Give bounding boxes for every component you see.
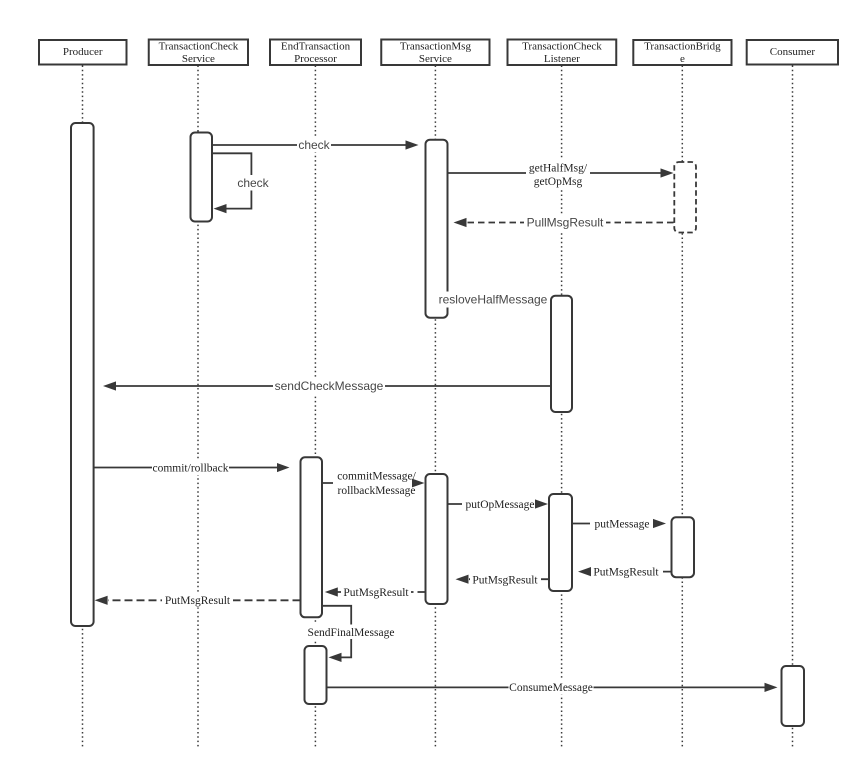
message PutMsgResult (TransactionCheckListener to TransactionMsgService, dashed) bbox=[456, 572, 550, 587]
activation Producer bbox=[71, 123, 94, 626]
lifeline EndTransactionProcessor bbox=[314, 66, 316, 748]
message SendFinalMessage (EndTransactionProcessor self-call) bbox=[304, 606, 398, 662]
activation EndTransactionProcessor 1 bbox=[301, 457, 323, 617]
svg-text:PutMsgResult: PutMsgResult bbox=[472, 574, 538, 586]
svg-text:Service: Service bbox=[182, 53, 215, 65]
svg-text:TransactionCheck: TransactionCheck bbox=[159, 41, 239, 53]
message PutMsgResult (EndTransactionProcessor to Producer, dashed) bbox=[95, 593, 301, 608]
participant TransactionMsgService bbox=[381, 40, 489, 66]
svg-text:check: check bbox=[298, 138, 330, 152]
activation TransactionMsgService 2 bbox=[426, 474, 448, 604]
message PutMsgResult (TransactionBridge to TransactionCheckListener, dashed) bbox=[578, 564, 671, 579]
participant Producer bbox=[39, 40, 127, 65]
message putMessage (TransactionCheckListener to TransactionBridge) bbox=[572, 516, 666, 531]
svg-text:sendCheckMessage: sendCheckMessage bbox=[275, 379, 384, 393]
message PutMsgResult (TransactionMsgService to EndTransactionProcessor, dashed) bbox=[325, 585, 426, 600]
svg-text:commit/rollback: commit/rollback bbox=[152, 462, 228, 474]
svg-text:TransactionBridg: TransactionBridg bbox=[644, 41, 721, 53]
message ConsumeMessage (EndTransactionProcessor to Consumer) bbox=[327, 680, 778, 695]
participant Consumer bbox=[747, 40, 838, 65]
svg-text:e: e bbox=[680, 53, 685, 65]
svg-text:getOpMsg: getOpMsg bbox=[534, 176, 583, 188]
message putOpMessage (TransactionMsgService to TransactionCheckListener) bbox=[448, 497, 549, 512]
participant EndTransactionProcessor bbox=[270, 40, 361, 66]
lifeline TransactionCheckService bbox=[197, 66, 199, 748]
label resloveHalfMessage bbox=[438, 292, 548, 308]
svg-text:check: check bbox=[237, 176, 269, 190]
participant TransactionCheckListener bbox=[508, 40, 617, 66]
svg-text:PutMsgResult: PutMsgResult bbox=[343, 587, 409, 599]
svg-text:getHalfMsg/: getHalfMsg/ bbox=[529, 162, 588, 174]
activation TransactionBridge 1 (dashed) bbox=[674, 162, 696, 233]
svg-text:SendFinalMessage: SendFinalMessage bbox=[308, 627, 395, 639]
svg-text:putMessage: putMessage bbox=[595, 518, 650, 530]
svg-text:EndTransaction: EndTransaction bbox=[281, 41, 351, 53]
message commit/rollback (Producer to EndTransactionProcessor) bbox=[94, 461, 290, 476]
activation TransactionMsgService 1 bbox=[426, 140, 448, 318]
activation TransactionBridge 2 bbox=[672, 517, 695, 577]
lifeline TransactionBridge bbox=[681, 66, 683, 748]
lifeline TransactionCheckListener bbox=[561, 66, 563, 748]
activation Consumer bbox=[782, 666, 805, 726]
activation EndTransactionProcessor 2 bbox=[305, 646, 327, 704]
lifeline Consumer bbox=[792, 66, 794, 748]
svg-text:Listener: Listener bbox=[544, 53, 580, 65]
svg-text:Producer: Producer bbox=[63, 46, 103, 58]
message PullMsgResult (TransactionBridge to TransactionMsgService, dashed) bbox=[454, 215, 674, 231]
message check (TransactionCheckService to TransactionMsgService) bbox=[212, 138, 419, 153]
participant TransactionCheckService bbox=[149, 40, 248, 66]
message getHalfMsg/getOpMsg (TransactionMsgService to TransactionBridge) bbox=[448, 160, 674, 190]
activation TransactionCheckListener 1 bbox=[551, 296, 572, 412]
message sendCheckMessage (TransactionCheckListener to Producer) bbox=[103, 379, 551, 395]
lifeline Producer bbox=[82, 66, 84, 748]
svg-text:Consumer: Consumer bbox=[770, 46, 816, 58]
svg-text:PutMsgResult: PutMsgResult bbox=[593, 566, 659, 578]
message check (self-call on TransactionCheckService) bbox=[213, 153, 271, 213]
svg-text:resloveHalfMessage: resloveHalfMessage bbox=[439, 293, 548, 307]
svg-text:PutMsgResult: PutMsgResult bbox=[165, 595, 231, 607]
lifeline TransactionMsgService bbox=[434, 66, 436, 748]
svg-text:ConsumeMessage: ConsumeMessage bbox=[509, 682, 593, 694]
svg-text:rollbackMessage: rollbackMessage bbox=[338, 485, 416, 497]
svg-text:putOpMessage: putOpMessage bbox=[466, 499, 535, 511]
participant TransactionBridge bbox=[633, 40, 731, 65]
message commitMessage/rollbackMessage (EndTransactionProcessor to TransactionMsgService) bbox=[322, 469, 425, 498]
svg-text:commitMessage/: commitMessage/ bbox=[337, 471, 416, 483]
svg-text:TransactionCheck: TransactionCheck bbox=[522, 41, 602, 53]
svg-text:Processor: Processor bbox=[294, 53, 337, 65]
svg-text:Service: Service bbox=[419, 53, 452, 65]
activation TransactionCheckListener 2 bbox=[549, 494, 572, 591]
svg-text:TransactionMsg: TransactionMsg bbox=[400, 41, 472, 53]
activation TransactionCheckService bbox=[191, 133, 213, 222]
svg-text:PullMsgResult: PullMsgResult bbox=[527, 216, 604, 230]
